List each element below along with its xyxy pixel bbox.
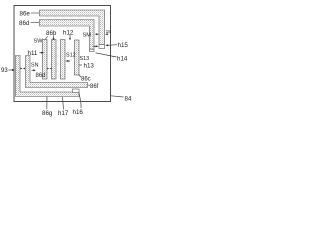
svg-text:93: 93 (1, 68, 8, 74)
svg-text:86d: 86d (19, 20, 30, 27)
svg-text:84: 84 (125, 95, 132, 102)
svg-text:h16: h16 (73, 109, 84, 116)
svg-text:SN: SN (31, 62, 39, 68)
svg-text:SW: SW (34, 38, 44, 44)
svg-text:SM: SM (83, 32, 92, 38)
svg-text:18: 18 (106, 29, 112, 35)
svg-text:h11: h11 (28, 50, 38, 57)
svg-text:86f: 86f (90, 84, 99, 90)
svg-text:h13: h13 (84, 63, 95, 70)
svg-text:86b: 86b (46, 30, 57, 37)
svg-text:86d: 86d (36, 73, 46, 79)
svg-text:h12: h12 (63, 30, 74, 37)
svg-text:h15: h15 (118, 42, 129, 49)
svg-text:S12: S12 (66, 52, 76, 58)
svg-text:86c: 86c (81, 77, 91, 83)
svg-text:86g: 86g (42, 110, 53, 117)
svg-text:S13: S13 (80, 56, 90, 62)
svg-text:h17: h17 (58, 110, 69, 117)
svg-text:86e: 86e (20, 11, 31, 18)
svg-text:h14: h14 (117, 55, 128, 62)
